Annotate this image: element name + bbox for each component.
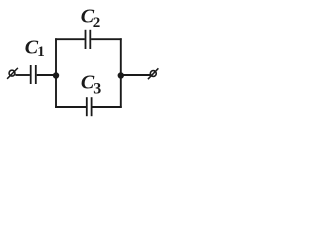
svg-text:3: 3 <box>93 81 101 98</box>
svg-text:1: 1 <box>37 44 45 60</box>
svg-text:2: 2 <box>93 15 101 31</box>
